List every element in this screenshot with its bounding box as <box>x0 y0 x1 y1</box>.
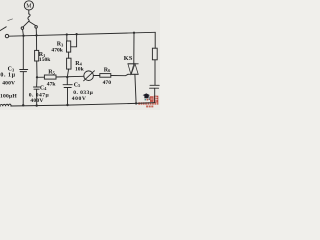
svg-text:10k: 10k <box>75 67 85 73</box>
svg-text:470: 470 <box>103 80 112 86</box>
svg-text:M: M <box>26 4 32 10</box>
svg-text:100μH: 100μH <box>0 94 17 100</box>
svg-text:C4: C4 <box>40 85 47 91</box>
svg-text:470k: 470k <box>51 48 63 54</box>
svg-text:C3: C3 <box>8 66 15 72</box>
svg-text:0. 1μ: 0. 1μ <box>0 73 15 79</box>
svg-text:C5: C5 <box>74 82 81 88</box>
svg-text:150k: 150k <box>39 57 51 63</box>
svg-text:400V: 400V <box>72 96 87 102</box>
svg-text:KS: KS <box>124 55 133 62</box>
svg-text:R5: R5 <box>48 69 55 75</box>
svg-text:R6: R6 <box>104 67 111 73</box>
svg-text:400V: 400V <box>30 98 43 104</box>
svg-text:R3: R3 <box>57 41 64 47</box>
svg-text:400V: 400V <box>2 81 15 87</box>
svg-text:47k: 47k <box>47 81 57 87</box>
